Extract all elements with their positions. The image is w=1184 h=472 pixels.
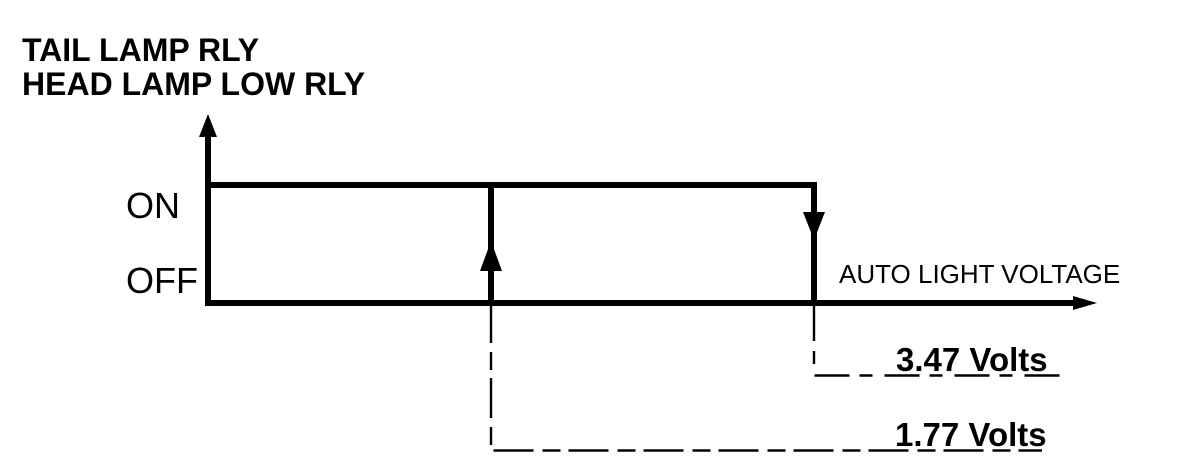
rising transition line at 1.77 V — [488, 182, 494, 306]
falling transition line at 3.47 V — [811, 182, 817, 306]
y-axis arrowhead — [199, 114, 217, 137]
svg-text:OFF: OFF — [126, 260, 198, 301]
svg-text:ON: ON — [126, 185, 180, 226]
svg-text:HEAD LAMP LOW RLY: HEAD LAMP LOW RLY — [22, 66, 365, 102]
dash-dot leader to 1.77 Volts — [491, 303, 1042, 451]
x-axis line — [205, 300, 1073, 306]
up arrowhead on rising transition — [480, 241, 502, 271]
y-axis line — [205, 128, 211, 306]
dash-dot leader to 3.47 Volts — [814, 306, 1061, 376]
x-axis arrowhead — [1073, 296, 1097, 310]
ON level line — [205, 182, 817, 188]
svg-text:TAIL LAMP RLY: TAIL LAMP RLY — [22, 32, 259, 68]
svg-text:1.77 Volts: 1.77 Volts — [895, 416, 1047, 453]
svg-text:3.47 Volts: 3.47 Volts — [896, 341, 1048, 378]
svg-text:AUTO LIGHT VOLTAGE: AUTO LIGHT VOLTAGE — [839, 259, 1120, 289]
down arrowhead on falling transition — [803, 212, 825, 240]
